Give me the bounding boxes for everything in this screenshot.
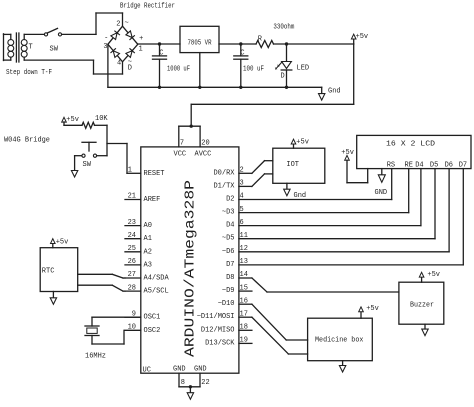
svg-text:1: 1 xyxy=(128,167,132,175)
svg-text:D13/SCK: D13/SCK xyxy=(205,339,235,347)
svg-text:~D11/MOSI: ~D11/MOSI xyxy=(197,313,235,321)
svg-text:R: R xyxy=(258,36,263,44)
svg-text:OSC1: OSC1 xyxy=(144,314,161,322)
svg-text:21: 21 xyxy=(128,193,136,201)
svg-text:+5v: +5v xyxy=(366,305,379,313)
svg-text:D4: D4 xyxy=(226,222,234,230)
svg-text:+5v: +5v xyxy=(296,139,309,147)
svg-text:GND: GND xyxy=(375,189,388,197)
svg-text:16 X 2 LCD: 16 X 2 LCD xyxy=(386,140,435,148)
svg-text:27: 27 xyxy=(128,271,136,279)
svg-text:AREF: AREF xyxy=(144,196,161,204)
svg-text:+5v: +5v xyxy=(66,116,79,124)
svg-text:Step down T-F: Step down T-F xyxy=(6,69,52,77)
svg-text:4: 4 xyxy=(117,59,121,67)
svg-text:T: T xyxy=(29,44,33,52)
svg-text:2: 2 xyxy=(116,20,120,28)
svg-text:GND: GND xyxy=(194,366,207,374)
svg-text:D: D xyxy=(128,64,132,72)
svg-text:100 uF: 100 uF xyxy=(243,65,264,73)
svg-text:D1/TX: D1/TX xyxy=(213,182,235,190)
svg-text:10K: 10K xyxy=(95,115,108,123)
svg-text:Gnd: Gnd xyxy=(294,192,307,200)
svg-text:A2: A2 xyxy=(144,248,152,256)
svg-text:D7: D7 xyxy=(226,261,234,269)
svg-text:23: 23 xyxy=(128,219,136,227)
svg-text:RESET: RESET xyxy=(144,170,165,178)
svg-text:~D5: ~D5 xyxy=(222,235,235,243)
svg-text:D8: D8 xyxy=(226,274,234,282)
svg-text:ARDUINO/ATmega328P: ARDUINO/ATmega328P xyxy=(183,180,199,357)
svg-text:AVCC: AVCC xyxy=(195,150,212,158)
svg-text:3: 3 xyxy=(103,43,107,51)
svg-text:+5v: +5v xyxy=(427,271,440,279)
svg-text:Gnd: Gnd xyxy=(328,88,341,96)
svg-text:A5/SCL: A5/SCL xyxy=(144,288,169,296)
svg-text:~D3: ~D3 xyxy=(222,209,235,217)
svg-text:24: 24 xyxy=(128,232,136,240)
svg-text:A0: A0 xyxy=(144,222,152,230)
svg-text:25: 25 xyxy=(128,245,136,253)
svg-text:26: 26 xyxy=(128,258,136,266)
svg-text:22: 22 xyxy=(201,379,209,387)
svg-text:RS: RS xyxy=(387,162,395,170)
svg-text:330ohm: 330ohm xyxy=(273,24,294,32)
svg-text:SW: SW xyxy=(50,46,59,54)
svg-text:-: - xyxy=(104,34,108,42)
svg-text:LED: LED xyxy=(297,65,310,73)
svg-text:D5: D5 xyxy=(430,162,438,170)
svg-text:VCC: VCC xyxy=(174,150,187,158)
svg-text:16MHz: 16MHz xyxy=(85,353,106,361)
svg-text:UC: UC xyxy=(143,366,151,374)
svg-text:RTC: RTC xyxy=(42,267,55,275)
svg-text:Bridge Rectifier: Bridge Rectifier xyxy=(120,3,175,11)
svg-text:~D9: ~D9 xyxy=(222,287,235,295)
svg-text:1000 uF: 1000 uF xyxy=(167,65,190,73)
svg-text:A4/SDA: A4/SDA xyxy=(144,275,170,283)
svg-text:1: 1 xyxy=(139,46,143,54)
svg-text:W04G Bridge: W04G Bridge xyxy=(4,137,50,145)
svg-text:C: C xyxy=(240,50,244,58)
svg-text:~D6: ~D6 xyxy=(222,248,235,256)
svg-text:OSC2: OSC2 xyxy=(144,327,161,335)
svg-text:Medicine box: Medicine box xyxy=(315,336,363,344)
svg-text:+5v: +5v xyxy=(356,33,369,41)
svg-text:8: 8 xyxy=(181,379,185,387)
svg-text:7805 VR: 7805 VR xyxy=(188,39,213,47)
svg-text:Buzzer: Buzzer xyxy=(410,301,434,309)
svg-text:D: D xyxy=(281,73,285,81)
svg-text:+5v: +5v xyxy=(341,149,354,157)
svg-text:GND: GND xyxy=(173,366,186,374)
svg-text:+5v: +5v xyxy=(56,238,69,246)
svg-text:IOT: IOT xyxy=(286,161,299,169)
svg-text:C: C xyxy=(159,50,163,58)
svg-text:D0/RX: D0/RX xyxy=(213,169,235,177)
svg-text:SW: SW xyxy=(83,161,92,169)
svg-text:A3: A3 xyxy=(144,261,152,269)
svg-text:D2: D2 xyxy=(226,196,234,204)
svg-text:D12/MISO: D12/MISO xyxy=(201,326,235,334)
svg-text:~: ~ xyxy=(125,20,129,28)
svg-text:~D10: ~D10 xyxy=(218,300,235,308)
svg-text:A1: A1 xyxy=(144,235,152,243)
svg-text:28: 28 xyxy=(128,284,136,292)
svg-text:D4: D4 xyxy=(415,162,423,170)
svg-text:+: + xyxy=(139,35,143,43)
svg-text:10: 10 xyxy=(128,324,136,332)
